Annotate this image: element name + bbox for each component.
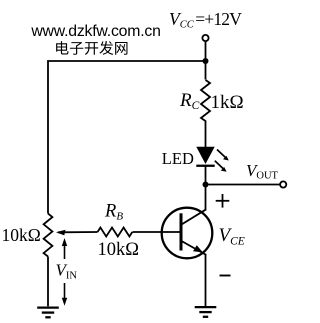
node junction A (Vcc rail) [203,58,209,64]
svg-text:10kΩ: 10kΩ [2,225,41,245]
wire wiper arrow stem [58,231,98,233]
svg-text:10kΩ: 10kΩ [98,240,140,260]
svg-text:www.dzkfw.com.cn: www.dzkfw.com.cn [30,23,160,40]
transistor Q1 base bar [180,213,183,250]
wire RC to LED [205,121,207,148]
LED light arrow 1 [217,150,229,161]
Vin arrow down [62,283,67,306]
label minus [220,275,231,277]
wire base RB to transistor [133,231,180,233]
LED D1 cathode bar [196,165,214,167]
LED D1 triangle [196,147,214,164]
wire Vout tap [206,184,280,186]
terminal Vout (open circle) [280,181,286,187]
transistor Q1 emitter diagonal [182,241,207,255]
wire emitter to ground right [205,255,207,307]
ground right [195,307,217,317]
wire LED cathode to collector [205,166,207,210]
potentiometer zigzag [44,214,53,257]
label plus [216,194,230,208]
ground left [37,308,59,318]
resistor RC zigzag [201,80,210,121]
wire junction A left and down to potentiometer [48,61,206,214]
wire potentiometer to ground left [47,257,49,307]
transistor Q1 collector diagonal [182,209,207,224]
LED light arrow 2 [215,161,227,172]
resistor RB zigzag [98,228,133,237]
terminal Vcc (open circle) [202,35,208,41]
svg-text:LED: LED [162,149,194,168]
wire Vcc terminal to junction A [205,42,207,80]
svg-text:1kΩ: 1kΩ [211,92,244,113]
wiper arrowhead of potentiometer [56,230,66,236]
transistor Q1 emitter arrowhead [193,245,203,252]
Vin arrow up [62,238,67,259]
transistor Q1 circle [162,208,213,259]
node junction B (Vout tap) [203,182,209,188]
label 电子开发网 (traced paths) [56,41,127,55]
